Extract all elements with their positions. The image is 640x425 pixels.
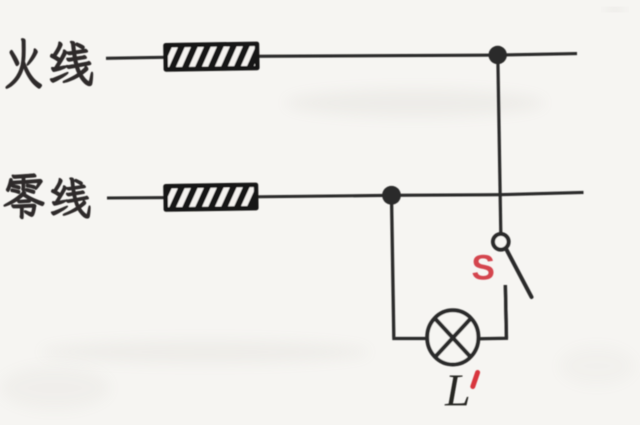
- wire: from neutral junction down and right to lamp: [392, 195, 428, 338]
- switch S arm (open): [506, 248, 532, 297]
- label 零线 (neutral wire): [4, 174, 44, 218]
- fuse F2 (hatched box on neutral wire): [162, 179, 270, 215]
- wire: lamp right lead up to switch terminal: [478, 285, 506, 339]
- switch S lower terminal: [505, 285, 506, 338]
- svg-text:S: S: [472, 249, 495, 288]
- lamp L (circle with X): [427, 310, 478, 364]
- switch S pivot circle: [493, 234, 509, 250]
- label 火线 (live wire): [6, 39, 41, 88]
- node: junction dot on neutral wire: [382, 186, 401, 205]
- fuse F1 (hatched box on live wire): [162, 38, 270, 74]
- wire: neutral line (bottom horizontal): [107, 192, 584, 198]
- wire: live line (top horizontal): [106, 54, 577, 59]
- node: junction dot on live wire: [489, 46, 507, 64]
- label prime (red) of L': [473, 373, 478, 387]
- wire: vertical from live junction down to switch: [498, 55, 501, 233]
- svg-text:L: L: [444, 365, 471, 416]
